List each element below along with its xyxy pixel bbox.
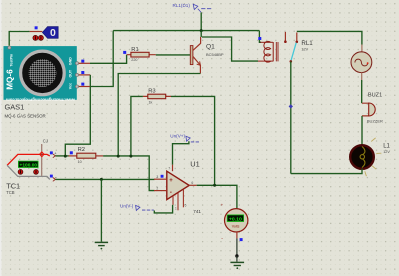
svg-text:R1: R1 xyxy=(131,47,138,53)
svg-text:12V: 12V xyxy=(383,150,390,154)
wire GND pin to R1 xyxy=(79,55,127,64)
junction rail collector xyxy=(200,29,203,32)
wire lamp bottom to switch pole xyxy=(291,169,362,174)
svg-text:1k: 1k xyxy=(149,100,153,104)
pin marker Vcc xyxy=(81,83,84,86)
svg-text:+100.00: +100.00 xyxy=(20,162,38,167)
wire switch pole down xyxy=(290,61,292,173)
svg-text:CJ: CJ xyxy=(43,139,48,144)
node marker top-left xyxy=(35,26,38,29)
resistor R2 xyxy=(77,153,103,158)
svg-text:5: 5 xyxy=(185,204,187,208)
node marker voltmeter xyxy=(240,238,243,241)
resistor R1 xyxy=(127,52,156,57)
wire rail2 switch to AC source xyxy=(297,31,362,44)
svg-text:MQ-6 GAS SENSOR: MQ-6 GAS SENSOR xyxy=(5,113,46,118)
svg-text:Vcc: Vcc xyxy=(69,83,73,89)
thermocouple TC1 xyxy=(7,144,50,179)
svg-text:BUZZER: BUZZER xyxy=(367,118,383,123)
wire Vcc pin xyxy=(79,86,91,88)
wire buzzer to lamp xyxy=(361,116,363,145)
wire probe to TestPin xyxy=(9,32,42,46)
svg-text:6: 6 xyxy=(191,181,193,185)
svg-text:2: 2 xyxy=(156,187,158,191)
svg-text:3: 3 xyxy=(156,175,158,179)
junction ground tap xyxy=(100,178,103,181)
wire R3 left to minus node xyxy=(131,96,143,156)
pin minus marker xyxy=(50,175,57,182)
wire R1 to Q1 base xyxy=(156,54,191,56)
wire terminal to rail xyxy=(200,12,202,30)
wire rail drop to relay coil top xyxy=(259,31,261,43)
svg-text:R2: R2 xyxy=(78,147,85,153)
terminal RL1(D1) xyxy=(173,3,213,12)
pin marker GND xyxy=(81,60,84,63)
relay RL1 switch xyxy=(284,32,298,63)
svg-text:0: 0 xyxy=(50,27,56,39)
svg-text:+: + xyxy=(221,203,224,208)
wire R2 to minus input xyxy=(103,156,154,191)
svg-text:R3: R3 xyxy=(148,89,155,95)
junction diamond marker xyxy=(289,104,293,108)
wire TC minus to plus input xyxy=(55,178,154,180)
voltmeter xyxy=(221,203,248,242)
node marker pin3 xyxy=(161,175,164,178)
wire junction to ground xyxy=(236,256,238,262)
node marker relay coil xyxy=(258,37,261,40)
junction R3 node xyxy=(129,155,132,158)
svg-text:TestPin: TestPin xyxy=(9,54,13,67)
svg-text:+0.10: +0.10 xyxy=(229,216,242,222)
svg-text:RL1(D1): RL1(D1) xyxy=(173,3,191,8)
svg-text:TCB: TCB xyxy=(6,190,15,195)
svg-text:-: - xyxy=(170,189,172,196)
AC source xyxy=(351,52,372,73)
wire collector to rail xyxy=(200,31,202,37)
wire to ground xyxy=(100,179,102,241)
wire TC plus to R2 xyxy=(55,155,76,157)
wire sensor node down to R2 input xyxy=(65,87,90,157)
svg-text:Q1: Q1 xyxy=(206,43,215,50)
svg-text:MQ-6: MQ-6 xyxy=(5,69,14,90)
svg-text:Un(V-): Un(V-) xyxy=(120,203,134,208)
wire collector node to relay coil bottom xyxy=(202,37,258,61)
wire voltmeter to ground xyxy=(236,232,238,256)
node marker R2 xyxy=(70,151,73,154)
wire Vcc node to rail riser xyxy=(90,31,113,87)
transistor Q1 xyxy=(190,37,200,74)
ground symbol right xyxy=(230,262,244,269)
lamp L1 xyxy=(350,138,381,176)
relay RL1 coil xyxy=(258,41,278,62)
op-amp U1 xyxy=(154,165,197,211)
svg-text:RL1: RL1 xyxy=(301,40,313,47)
svg-text:GND: GND xyxy=(69,57,73,65)
wire OUT pin down xyxy=(79,75,91,87)
wire V+ to pin7 xyxy=(173,141,189,164)
node marker R1 xyxy=(123,51,126,54)
svg-text:1: 1 xyxy=(175,206,177,210)
terminal Un(V+) xyxy=(170,133,199,142)
svg-text:10: 10 xyxy=(78,160,82,164)
svg-text:Un(V+): Un(V+) xyxy=(170,133,185,138)
wire top rail xyxy=(113,30,259,32)
svg-text:OUT: OUT xyxy=(69,69,73,77)
svg-text:BUZ1: BUZ1 xyxy=(368,92,382,98)
logic probe 0 xyxy=(42,27,58,40)
pin plus marker xyxy=(50,150,57,157)
wire AC source to buzzer xyxy=(361,73,363,80)
resistor R3 xyxy=(143,94,171,99)
wire emitter to feedback node xyxy=(118,74,200,157)
wire output to voltmeter xyxy=(197,185,237,208)
gas sensor GAS1 MQ-6 xyxy=(4,46,79,102)
svg-text:L1: L1 xyxy=(383,143,390,149)
svg-text:12V: 12V xyxy=(301,48,308,52)
svg-text:Volts: Volts xyxy=(232,224,240,228)
svg-text:BC548BP: BC548BP xyxy=(206,52,224,57)
junction feedback output xyxy=(213,184,216,187)
svg-text:+: + xyxy=(169,178,173,184)
junction TC plus sensor node xyxy=(64,155,67,158)
wire R3 right feedback to output xyxy=(171,96,215,185)
svg-text:GAS1: GAS1 xyxy=(5,103,25,112)
terminal Un(V-) xyxy=(120,203,154,210)
svg-text:741: 741 xyxy=(193,209,201,214)
junction emitter node xyxy=(117,155,120,158)
junction voltmeter ground xyxy=(235,254,238,257)
pin marker OUT xyxy=(81,71,84,74)
svg-text:U1: U1 xyxy=(190,160,199,169)
LED indicator dots xyxy=(33,35,44,40)
svg-text:220: 220 xyxy=(131,58,137,62)
ground symbol left xyxy=(95,242,108,249)
wire V- to pin4 xyxy=(154,205,172,213)
buzzer BUZ1 xyxy=(362,103,375,116)
svg-text:7: 7 xyxy=(168,167,170,171)
